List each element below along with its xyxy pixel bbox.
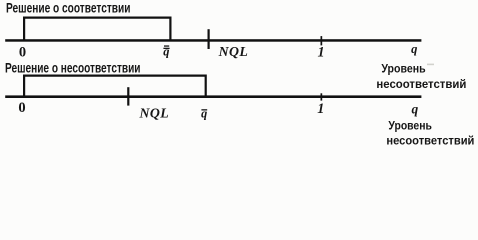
svg-text:NQL: NQL — [139, 105, 170, 120]
label q double bar on axis 1 — [163, 45, 169, 59]
faint scan artifact — [427, 64, 434, 66]
svg-text:1: 1 — [317, 101, 324, 117]
tick NQL on axis 2 — [127, 87, 129, 105]
svg-text:q: q — [201, 106, 207, 120]
svg-text:q: q — [412, 101, 419, 116]
svg-text:1: 1 — [317, 45, 324, 61]
svg-text:Уровень: Уровень — [388, 119, 432, 133]
svg-text:Решение о соответствии: Решение о соответствии — [6, 1, 131, 16]
axis line 2: nonconformity level — [5, 95, 421, 98]
svg-text:Решение о несоответствии: Решение о несоответствии — [5, 61, 141, 76]
tick 1 on axis 1 — [321, 36, 323, 45]
svg-text:q: q — [411, 42, 417, 56]
svg-text:0: 0 — [18, 100, 25, 116]
tick NQL on axis 1 — [208, 29, 210, 49]
svg-text:0: 0 — [19, 44, 26, 60]
svg-text:несоответствий: несоответствий — [386, 133, 474, 146]
svg-text:NQL: NQL — [218, 44, 249, 59]
tick 1 on axis 2 — [321, 93, 323, 100]
bracket: conformity acceptance interval 0..q= — [24, 18, 170, 40]
svg-text:Уровень: Уровень — [381, 61, 425, 75]
svg-text:несоответствий: несоответствий — [376, 77, 466, 91]
axis line 1: nonconformity level — [5, 39, 421, 42]
label q bar on axis 2 — [201, 106, 207, 120]
bracket: nonconformity interval 0..q bar — [24, 76, 206, 97]
